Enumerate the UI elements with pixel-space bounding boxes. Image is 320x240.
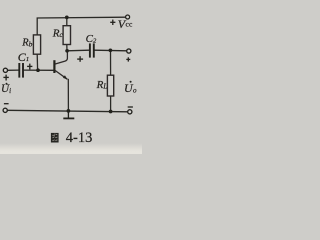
capacitor C2 plates [90,43,94,57]
junction dot RL bottom [109,110,113,114]
emitter lead [55,70,67,79]
wire RL bottom leg [110,96,112,112]
page background [0,0,142,154]
resistor R_c [63,26,70,45]
capacitor C1 plates [19,63,23,78]
resistor R_L [107,75,113,96]
wire C1 to base [24,69,54,71]
wire collector node to C2 [67,49,89,52]
emitter arrow [63,75,68,79]
terminal Ui minus [3,108,7,112]
svg-text:4-13: 4-13 [66,130,93,146]
wire C2 to output terminal [95,49,127,52]
wire input terminal to C1 [7,69,18,71]
junction dot base node [36,68,40,72]
label + at C2 [77,56,83,62]
base bar [53,60,55,73]
wire bottom rail [7,110,128,112]
terminal Uo plus [127,49,131,53]
wire RL top leg [110,50,112,75]
terminal Vcc [126,15,130,19]
label - at output bottom [128,106,133,108]
label - at input bottom [4,103,9,105]
terminal Uo minus [128,110,132,114]
collector lead [55,51,67,64]
wire Rb bottom leg [36,54,38,70]
ground [63,111,74,118]
junction dot collector node [65,49,69,53]
wire Rc bottom leg [66,45,68,51]
terminal Ui plus [3,68,7,72]
label +Vcc : plus [110,20,115,25]
junction dot output / RL top [109,48,113,52]
wire emitter down leg [67,79,69,111]
label + at C1 [27,64,32,70]
junction dot top rail / Rc [65,16,69,20]
label + at input terminal [3,75,8,81]
dot over Uo [130,81,132,83]
svg-text:Rb: Rb [21,37,32,48]
junction dot emitter / ground [67,109,71,113]
transistor Q1 [54,51,67,80]
wire Rc top leg [66,17,68,25]
label + at output terminal [126,57,130,61]
dot over Ui [6,83,8,85]
wire top rail [37,17,126,35]
resistor R_b [33,35,40,54]
lighter strip at bottom [0,143,142,154]
caption glyph tu (figure) [51,133,59,143]
